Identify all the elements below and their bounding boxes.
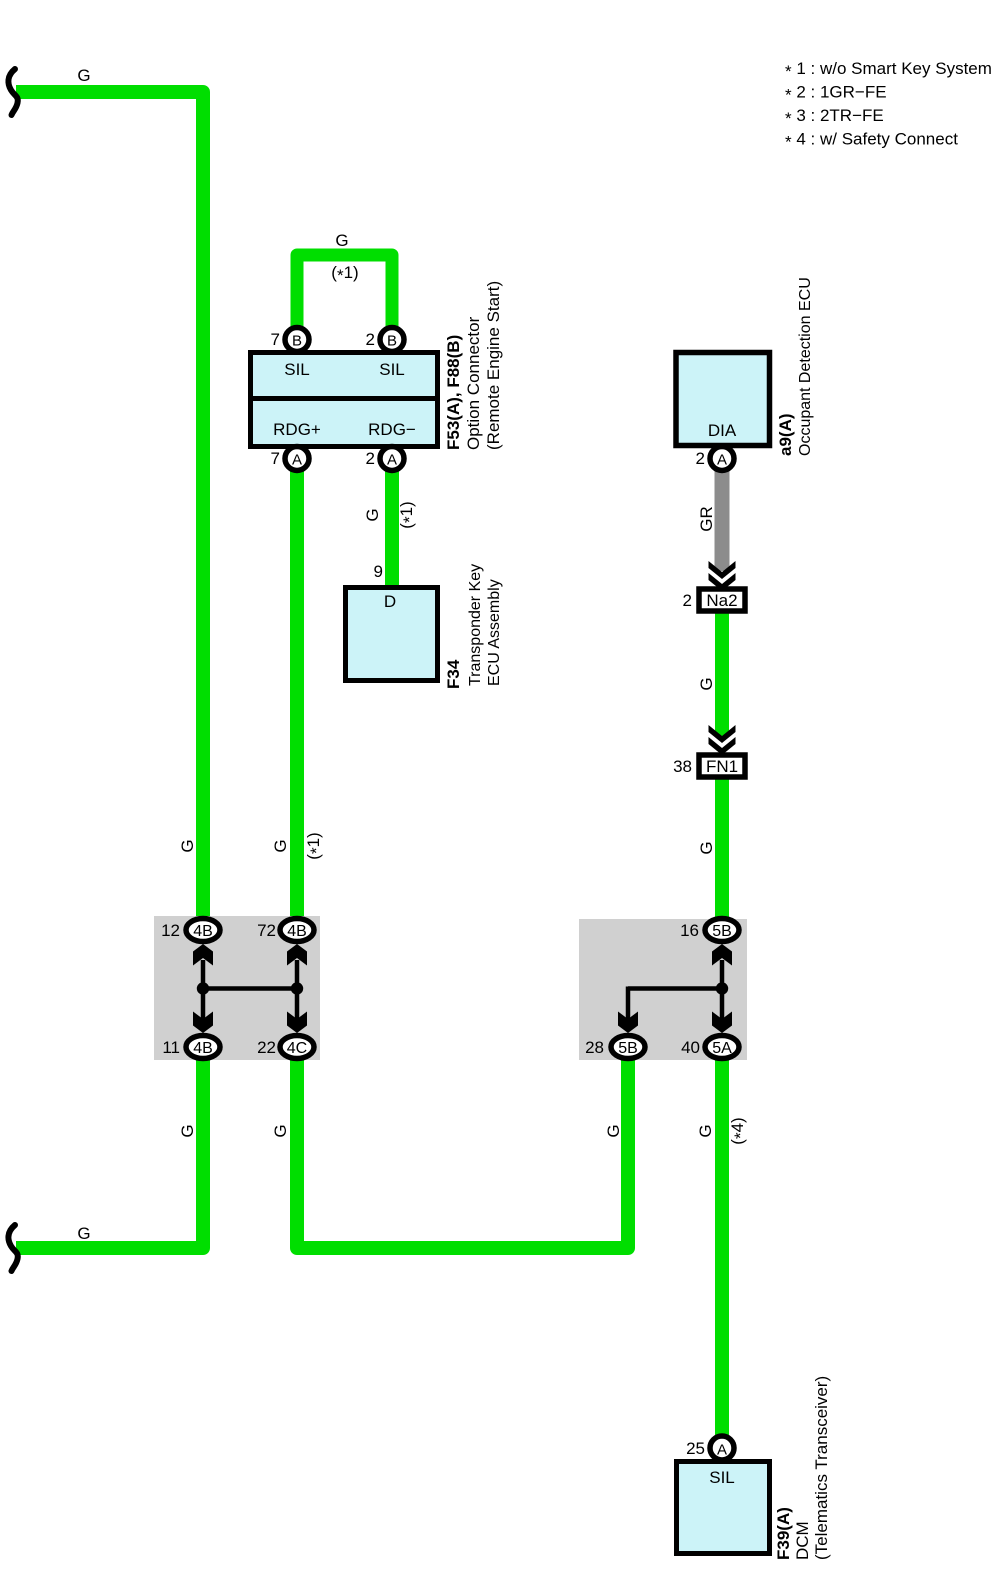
pin A of DCM bbox=[710, 1436, 734, 1460]
option connector F53(A), F88(B) body bbox=[251, 353, 438, 447]
svg-text:5B: 5B bbox=[618, 1040, 638, 1057]
svg-text:B: B bbox=[387, 333, 397, 350]
svg-text:G: G bbox=[604, 1124, 623, 1137]
bus line vertical (16/5B to 40/5A) bbox=[720, 960, 725, 1020]
junction dot left bbox=[197, 982, 209, 994]
svg-text:SIL: SIL bbox=[379, 360, 405, 379]
svg-text:7: 7 bbox=[271, 449, 280, 468]
svg-text:(*1): (*1) bbox=[331, 263, 358, 285]
svg-text:G: G bbox=[697, 841, 716, 854]
svg-text:4B: 4B bbox=[193, 1040, 213, 1057]
wire break symbol top-left bbox=[8, 69, 17, 115]
connector oval 4B (pin 72) bbox=[280, 919, 314, 942]
svg-text:* 2 : 1GR−FE: * 2 : 1GR−FE bbox=[785, 83, 887, 105]
svg-text:2: 2 bbox=[366, 330, 375, 349]
svg-text:9: 9 bbox=[374, 562, 383, 581]
svg-text:40: 40 bbox=[681, 1038, 700, 1057]
svg-text:4B: 4B bbox=[193, 923, 213, 940]
svg-text:72: 72 bbox=[257, 921, 276, 940]
arrow down into 40/5A bbox=[712, 1012, 732, 1034]
svg-text:G: G bbox=[77, 66, 90, 85]
svg-text:(*1): (*1) bbox=[304, 832, 326, 859]
bus line vertical (72/4B to 22/4C) bbox=[295, 960, 300, 1020]
option connector divider line bbox=[248, 396, 440, 401]
occupant detection ECU a9(A) body bbox=[676, 353, 770, 446]
wire GR (gray) from DIA pin 2-A down to connector Na2 bbox=[715, 459, 730, 571]
connector oval 5B (pin 16) bbox=[705, 919, 739, 942]
svg-text:Option Connector: Option Connector bbox=[464, 316, 483, 450]
svg-text:2: 2 bbox=[366, 449, 375, 468]
svg-text:SIL: SIL bbox=[284, 360, 310, 379]
arrow down into 22/4C bbox=[287, 1012, 307, 1034]
svg-text:Na2: Na2 bbox=[706, 591, 737, 610]
junction dot right block bbox=[716, 982, 728, 994]
svg-text:DCM: DCM bbox=[793, 1521, 812, 1560]
connector oval 5B (pin 28) bbox=[611, 1036, 645, 1059]
svg-text:F34: F34 bbox=[444, 659, 463, 689]
bus line horizontal (right block) bbox=[628, 986, 722, 991]
svg-text:A: A bbox=[717, 1442, 727, 1459]
svg-text:G: G bbox=[271, 1124, 290, 1137]
svg-text:F53(A), F88(B): F53(A), F88(B) bbox=[444, 335, 463, 450]
svg-text:4B: 4B bbox=[287, 923, 307, 940]
svg-text:(Telematics Transceiver): (Telematics Transceiver) bbox=[812, 1376, 831, 1560]
connector oval 4B (pin 12) bbox=[186, 919, 220, 942]
wire G (green) from FN1 down to junction 16/5B bbox=[715, 779, 729, 917]
svg-text:G: G bbox=[178, 1124, 197, 1137]
svg-text:28: 28 bbox=[585, 1038, 604, 1057]
DCM F39(A) body bbox=[677, 1462, 770, 1554]
svg-text:G: G bbox=[696, 1124, 715, 1137]
svg-text:G: G bbox=[697, 677, 716, 690]
svg-text:RDG−: RDG− bbox=[368, 420, 416, 439]
svg-text:G: G bbox=[335, 231, 348, 250]
svg-text:G: G bbox=[271, 839, 290, 852]
svg-text:25: 25 bbox=[686, 1439, 705, 1458]
wire G (green) from top-left break right and down to junction 12/4B bbox=[16, 92, 203, 917]
svg-text:SIL: SIL bbox=[709, 1468, 735, 1487]
pin A of occupant detection ECU bbox=[710, 447, 734, 471]
svg-text:F39(A): F39(A) bbox=[774, 1507, 793, 1560]
svg-text:G: G bbox=[178, 839, 197, 852]
svg-text:Transponder Key: Transponder Key bbox=[467, 564, 484, 686]
svg-text:D: D bbox=[384, 592, 396, 611]
wire G (green) from junction 40/5A down to DCM pin 25-A bbox=[715, 1060, 729, 1436]
svg-text:FN1: FN1 bbox=[706, 757, 738, 776]
svg-text:GR: GR bbox=[697, 506, 716, 532]
junction block J/B left (shaded) bbox=[154, 916, 320, 1060]
svg-text:38: 38 bbox=[673, 757, 692, 776]
svg-text:2: 2 bbox=[696, 449, 705, 468]
connector oval 4C (pin 22) bbox=[280, 1036, 314, 1059]
pin A (right) of option connector bbox=[380, 447, 404, 471]
junction block J/B right (shaded) bbox=[579, 919, 747, 1060]
connector oval 4B (pin 11) bbox=[186, 1036, 220, 1059]
arrow down into 28/5B bbox=[618, 1012, 638, 1034]
arrow up into 72/4B bbox=[287, 944, 307, 966]
svg-text:a9(A): a9(A) bbox=[776, 413, 795, 456]
svg-text:5A: 5A bbox=[712, 1040, 732, 1057]
svg-text:* 1 : w/o Smart Key System: * 1 : w/o Smart Key System bbox=[785, 59, 992, 81]
pin B (left) of option connector bbox=[285, 328, 309, 352]
svg-text:Occupant Detection ECU: Occupant Detection ECU bbox=[797, 277, 814, 456]
svg-text:(*1): (*1) bbox=[397, 501, 419, 528]
arrow down into 11/4B bbox=[193, 1012, 213, 1034]
svg-text:ECU Assembly: ECU Assembly bbox=[486, 579, 503, 686]
wire G (green) from junction 22/4C down, right and up to junction 28/5B bbox=[297, 1060, 628, 1248]
wire G (green) from Na2 down to connector FN1 bbox=[715, 613, 729, 736]
bus line horizontal (left block) bbox=[203, 986, 297, 991]
svg-text:RDG+: RDG+ bbox=[273, 420, 321, 439]
svg-text:2: 2 bbox=[683, 591, 692, 610]
connector Na2 bbox=[699, 589, 745, 611]
svg-text:A: A bbox=[717, 452, 727, 469]
wire G (green) loop between pin 7-B and pin 2-B of option connector bbox=[297, 255, 392, 341]
svg-text:(*4): (*4) bbox=[728, 1117, 750, 1144]
wire break symbol bottom-left bbox=[8, 1225, 17, 1271]
svg-text:11: 11 bbox=[162, 1038, 180, 1057]
svg-text:A: A bbox=[387, 452, 397, 469]
bus line vertical (down to 28/5B) bbox=[626, 987, 631, 1021]
svg-text:A: A bbox=[292, 452, 302, 469]
svg-text:22: 22 bbox=[257, 1038, 276, 1057]
svg-text:4C: 4C bbox=[287, 1040, 307, 1057]
wire G (green) from pin 2-A down to F34 pin 9 bbox=[385, 459, 399, 592]
junction dot right bbox=[291, 982, 303, 994]
wire G (green) from junction 11/4B down and left to bottom break bbox=[16, 1060, 203, 1248]
svg-text:* 4 : w/ Safety Connect: * 4 : w/ Safety Connect bbox=[785, 130, 958, 152]
svg-text:B: B bbox=[292, 333, 302, 350]
svg-text:* 3 : 2TR−FE: * 3 : 2TR−FE bbox=[785, 106, 884, 128]
flow arrow (double chevron) into FN1 bbox=[709, 725, 736, 743]
wire G (green) from pin 7-A down to junction 72/4B bbox=[290, 459, 304, 917]
svg-text:G: G bbox=[363, 508, 382, 521]
flow arrow (double chevron) into Na2 bbox=[709, 561, 736, 579]
arrow up into 12/4B bbox=[193, 944, 213, 966]
pin A (left) of option connector bbox=[285, 447, 309, 471]
connector oval 5A (pin 40) bbox=[705, 1036, 739, 1059]
svg-text:(Remote Engine Start): (Remote Engine Start) bbox=[484, 281, 503, 450]
connector FN1 bbox=[699, 755, 745, 777]
transponder key ECU F34 body bbox=[346, 588, 438, 681]
svg-text:16: 16 bbox=[680, 921, 699, 940]
svg-text:5B: 5B bbox=[712, 923, 732, 940]
svg-text:G: G bbox=[77, 1224, 90, 1243]
svg-text:7: 7 bbox=[271, 330, 280, 349]
svg-text:DIA: DIA bbox=[708, 421, 737, 440]
bus line vertical (12/4B to 11/4B) bbox=[201, 960, 206, 1020]
svg-text:12: 12 bbox=[161, 921, 180, 940]
pin B (right) of option connector bbox=[380, 328, 404, 352]
arrow up into 16/5B bbox=[712, 944, 732, 966]
